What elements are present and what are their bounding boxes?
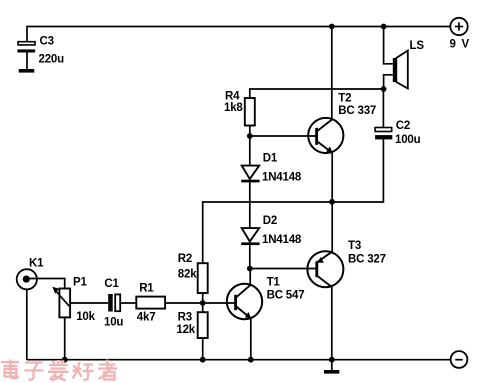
svg-text:1N4148: 1N4148: [262, 172, 302, 184]
svg-text:R4: R4: [225, 91, 240, 103]
transistor T1: [227, 284, 262, 319]
svg-text:1k8: 1k8: [224, 102, 243, 114]
svg-text:K1: K1: [29, 257, 44, 269]
wire P1 bottom lead: [64, 317, 66, 359]
transistor T3: [307, 251, 343, 287]
diode D2: [241, 228, 259, 245]
wire T3 base: [250, 268, 316, 270]
capacitor C1: [108, 294, 120, 312]
capacitor C3: [17, 42, 35, 73]
resistor R2: [198, 263, 208, 293]
wire C1 to R1: [120, 302, 136, 304]
wire T2 collector riser: [331, 27, 333, 121]
wire K1 ground lead: [26, 289, 28, 359]
svg-text:82k: 82k: [178, 269, 197, 281]
wire mid horizontal output bus: [203, 139, 384, 263]
svg-text:10k: 10k: [76, 311, 95, 323]
connector K1: [17, 269, 37, 289]
svg-text:T2: T2: [338, 93, 351, 105]
svg-text:D1: D1: [263, 153, 278, 165]
wire T3 collector down: [331, 287, 333, 360]
svg-text:10u: 10u: [104, 316, 123, 328]
svg-text:R3: R3: [178, 312, 192, 324]
svg-text:4k7: 4k7: [137, 312, 156, 324]
wire C3 riser: [26, 26, 28, 42]
svg-text:R1: R1: [139, 283, 154, 295]
wire K1 to P1: [27, 279, 65, 289]
svg-text:100u: 100u: [395, 134, 421, 146]
svg-text:C1: C1: [104, 278, 119, 290]
wire speaker bottom lead: [384, 75, 393, 89]
junction T3 collector / rail / ground: [329, 357, 335, 363]
wire top supply rail: [27, 26, 451, 28]
resistor R1: [136, 297, 165, 309]
svg-text:BC 337: BC 337: [338, 105, 376, 117]
wire D2 cathode lead: [249, 245, 251, 268]
svg-text:1N4148: 1N4148: [262, 234, 302, 246]
minus terminal: [451, 351, 468, 368]
svg-text:BC 327: BC 327: [348, 253, 386, 265]
wire R1 to T1 base node: [165, 302, 203, 304]
wire T2 base: [250, 135, 316, 137]
wire R4 bottom: [249, 126, 251, 137]
resistor R4: [245, 98, 255, 126]
wire R3 top lead: [202, 303, 204, 312]
svg-text:LS: LS: [410, 40, 425, 52]
transistor T2: [308, 118, 343, 153]
wire output node to R4 top: [250, 89, 384, 98]
svg-text:C2: C2: [396, 120, 410, 132]
junction D2/T1 collector/T3 base: [247, 266, 253, 272]
junction top rail / T2 collector: [329, 24, 335, 30]
potentiometer P1: [52, 287, 70, 318]
svg-text:220u: 220u: [39, 54, 65, 66]
ground symbol: [324, 360, 339, 374]
watermark 電子愛好者: [1, 360, 117, 381]
wire R3 bottom lead: [202, 338, 204, 360]
junction R2/R3/T1 base: [200, 300, 206, 306]
loudspeaker LS: [393, 51, 408, 89]
wire T1 collector lead: [249, 269, 251, 286]
svg-text:D2: D2: [263, 215, 277, 227]
svg-text:P1: P1: [73, 276, 87, 288]
svg-text:BC 547: BC 547: [267, 289, 305, 301]
wire P1 wiper to C1: [70, 302, 108, 304]
svg-text:9 V: 9 V: [450, 39, 471, 51]
capacitor C2: [375, 89, 392, 139]
resistor R3: [198, 312, 208, 338]
wire R2 bottom: [202, 293, 204, 303]
junction P1 / rail: [62, 357, 68, 363]
svg-text:C3: C3: [40, 36, 54, 48]
junction R3 / rail: [200, 357, 206, 363]
junction T2 emitter / T3 emitter: [329, 199, 335, 205]
junction R4/D1/T2 base: [247, 133, 253, 139]
svg-text:12k: 12k: [176, 324, 195, 336]
wire bottom ground rail: [27, 359, 451, 361]
junction top rail / speaker: [381, 24, 387, 30]
wire D1 anode lead: [249, 136, 251, 166]
wire T1 emitter down: [250, 318, 252, 359]
diode D1: [241, 166, 259, 183]
junction T1 emitter / rail: [248, 357, 254, 363]
wire T2 emitter down: [331, 153, 333, 202]
svg-text:R2: R2: [178, 253, 192, 265]
wire D1 cathode to D2 anode: [249, 182, 251, 228]
junction speaker/C2/R4 output node: [381, 86, 387, 92]
wire speaker top lead: [384, 27, 393, 64]
svg-text:T1: T1: [267, 277, 281, 289]
svg-text:T3: T3: [348, 240, 361, 252]
plus terminal 9V: [450, 18, 467, 35]
wire T1 base: [203, 302, 235, 304]
wire T3 emitter lead: [331, 202, 333, 252]
